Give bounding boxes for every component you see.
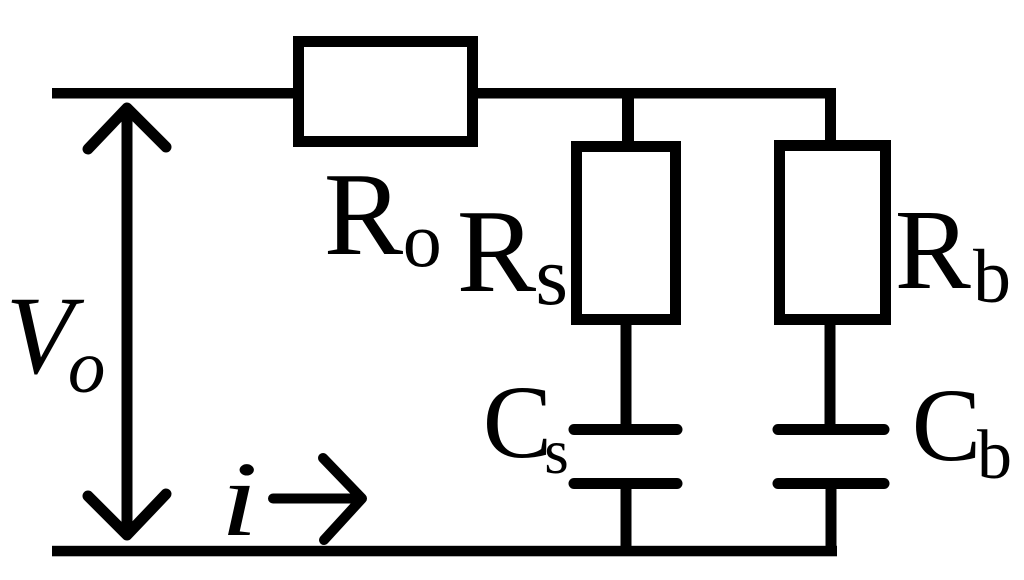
wire stub Cb to bottom rail bbox=[826, 489, 837, 556]
label i bbox=[221, 441, 258, 559]
svg-text:b: b bbox=[973, 235, 1011, 319]
label R_o bbox=[324, 148, 442, 283]
resistor R_b bbox=[780, 146, 886, 320]
svg-text:o: o bbox=[68, 326, 106, 409]
wire bottom rail bbox=[52, 546, 837, 557]
label V_o bbox=[6, 275, 106, 409]
wire stub Rs to Cs bbox=[621, 322, 632, 425]
label R_b bbox=[895, 186, 1011, 319]
svg-text:b: b bbox=[977, 417, 1012, 494]
label R_s bbox=[457, 185, 568, 323]
svg-text:C: C bbox=[483, 365, 552, 480]
wire stub Cs to bottom rail bbox=[621, 489, 632, 549]
svg-text:s: s bbox=[535, 230, 568, 323]
wire top rail bbox=[52, 88, 836, 99]
current arrow i bbox=[273, 458, 362, 540]
resistor R_s bbox=[577, 147, 676, 320]
svg-text:o: o bbox=[403, 196, 442, 283]
svg-text:s: s bbox=[544, 417, 569, 487]
svg-text:R: R bbox=[457, 185, 537, 317]
wire top-right corner drop bbox=[825, 88, 836, 143]
svg-text:i: i bbox=[221, 441, 258, 559]
voltage arrow V_o (double-headed) bbox=[88, 108, 166, 535]
svg-text:C: C bbox=[912, 368, 981, 483]
label C_b bbox=[912, 368, 1012, 494]
capacitor C_b bbox=[778, 430, 884, 484]
label C_s bbox=[483, 365, 569, 487]
resistor R_o bbox=[299, 42, 473, 142]
wire stub top of Rs bbox=[622, 98, 634, 143]
svg-text:R: R bbox=[324, 148, 404, 280]
capacitor C_s bbox=[574, 430, 677, 484]
wire stub Rb to Cb bbox=[825, 322, 836, 425]
svg-text:R: R bbox=[895, 186, 971, 313]
